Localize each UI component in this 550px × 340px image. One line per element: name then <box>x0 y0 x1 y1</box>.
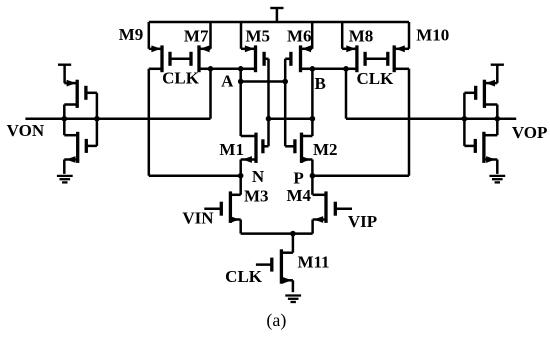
wire <box>496 160 499 174</box>
wire <box>292 234 295 253</box>
VON wire <box>25 117 210 120</box>
wire <box>311 160 314 176</box>
svg-text:M3: M3 <box>244 187 269 206</box>
label M10 <box>416 25 449 44</box>
label M2 <box>313 140 338 159</box>
node P label <box>293 169 303 188</box>
pmos right buffer <box>464 80 497 108</box>
transistor M7 <box>191 45 211 72</box>
VDD rail <box>149 21 409 24</box>
svg-text:CLK: CLK <box>356 69 394 88</box>
svg-text:M11: M11 <box>297 253 329 272</box>
wire <box>408 22 411 49</box>
node N label <box>252 167 265 186</box>
wire <box>170 58 191 61</box>
wire <box>462 93 468 146</box>
wire <box>148 69 151 176</box>
svg-text:N: N <box>252 167 265 186</box>
svg-text:M8: M8 <box>349 26 374 45</box>
label M3 <box>244 187 269 206</box>
svg-text:VON: VON <box>7 121 45 140</box>
node A wire <box>199 66 256 72</box>
wire <box>310 69 316 136</box>
transistor M11 <box>256 249 293 283</box>
transistor M4 <box>313 191 352 223</box>
transistor M5 <box>241 45 269 72</box>
wire <box>311 176 314 195</box>
label M8 <box>349 26 374 45</box>
wire <box>240 22 243 49</box>
svg-text:CLK: CLK <box>162 69 200 88</box>
wire <box>284 59 287 147</box>
wire <box>311 22 314 49</box>
svg-text:M7: M7 <box>184 26 209 45</box>
label VIN <box>182 209 214 228</box>
wire <box>311 220 314 234</box>
wire <box>209 69 212 119</box>
svg-text:M10: M10 <box>416 25 449 44</box>
VDD symbol <box>270 8 283 22</box>
transistor M6 <box>285 45 312 72</box>
svg-text:M4: M4 <box>287 186 312 205</box>
label M6 <box>287 27 312 46</box>
transistor M1 <box>241 133 269 163</box>
svg-text:B: B <box>315 74 326 93</box>
VDD symbol <box>58 65 71 83</box>
ground <box>57 176 73 183</box>
wire <box>365 58 388 61</box>
label CLK M11 <box>225 267 263 286</box>
VOP wire <box>346 117 516 120</box>
node A label <box>221 71 234 90</box>
label CLK right <box>356 69 394 88</box>
wire <box>408 69 411 176</box>
wire <box>495 105 501 136</box>
nmos left buffer <box>64 132 97 163</box>
label M9 <box>119 25 144 44</box>
svg-text:M1: M1 <box>219 140 244 159</box>
ground <box>489 176 505 183</box>
wire <box>94 93 100 146</box>
transistor M10 <box>388 45 409 72</box>
transistor M2 <box>285 133 312 163</box>
label M4 <box>287 186 312 205</box>
wire <box>239 176 242 195</box>
wire <box>148 22 151 49</box>
wire <box>239 220 242 234</box>
transistor M3 <box>204 191 240 223</box>
node B wire <box>301 66 357 72</box>
svg-text:M9: M9 <box>119 25 144 44</box>
wire <box>238 69 244 136</box>
ground <box>285 296 301 303</box>
wire <box>341 22 344 49</box>
wire <box>239 160 242 176</box>
wire <box>292 280 295 292</box>
svg-text:A: A <box>221 71 234 90</box>
wire <box>267 59 270 147</box>
svg-text:VIN: VIN <box>182 209 214 228</box>
label VOP <box>512 123 548 142</box>
svg-text:P: P <box>293 169 303 188</box>
wire <box>63 160 66 174</box>
transistor M9 <box>149 45 170 72</box>
svg-text:M6: M6 <box>287 27 312 46</box>
svg-text:CLK: CLK <box>225 267 263 286</box>
wire <box>241 231 313 237</box>
node B label <box>315 74 326 93</box>
label M1 <box>219 140 244 159</box>
label M5 <box>246 27 271 46</box>
VDD symbol <box>491 65 504 83</box>
label CLK left <box>162 69 200 88</box>
pmos left buffer <box>64 80 97 108</box>
svg-text:M5: M5 <box>246 27 271 46</box>
wire <box>266 116 313 122</box>
nmos right buffer <box>464 132 497 163</box>
label M7 <box>184 26 209 45</box>
label VON <box>7 121 45 140</box>
wire <box>62 105 68 136</box>
svg-text:M2: M2 <box>313 140 338 159</box>
node P wire <box>310 173 409 179</box>
wire <box>345 69 348 119</box>
svg-text:VIP: VIP <box>348 212 377 231</box>
caption (a) <box>266 310 286 331</box>
label M11 <box>297 253 329 272</box>
wire <box>241 79 288 85</box>
label VIP <box>348 212 377 231</box>
svg-text:(a): (a) <box>266 310 286 331</box>
svg-text:VOP: VOP <box>512 123 548 142</box>
transistor M8 <box>342 45 365 72</box>
node N wire <box>149 173 244 179</box>
wire <box>209 22 212 49</box>
